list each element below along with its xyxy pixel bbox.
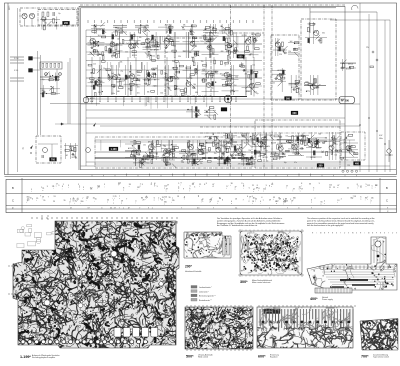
resistor R89	[125, 75, 127, 79]
junction	[150, 55, 151, 56]
svg-text:55: 55	[87, 196, 89, 198]
resistor R116	[212, 82, 214, 86]
svg-text:10µ: 10µ	[172, 61, 175, 63]
pcb 300 pad rows	[247, 243, 248, 244]
wire drop	[100, 140, 102, 151]
wire	[209, 32, 211, 58]
wire	[133, 140, 135, 160]
wire	[297, 133, 299, 145]
pcb 600 bottom traces	[255, 326, 359, 351]
arrow stroke	[102, 28, 107, 33]
arrow stroke	[93, 79, 98, 84]
resistor R141	[149, 155, 153, 157]
junction	[297, 86, 298, 87]
wire	[113, 31, 127, 33]
pcb 1-199 bottom pad row	[21, 340, 25, 344]
resistor R121	[227, 84, 231, 86]
arrow mark	[93, 123, 96, 127]
resistor R172	[234, 146, 236, 150]
resistor R296	[42, 93, 44, 97]
svg-text:21: 21	[118, 184, 120, 186]
wire	[165, 65, 167, 95]
capacitor C132	[243, 69, 245, 71]
small part	[228, 46, 232, 48]
capacitor C244	[196, 109, 198, 111]
svg-text:55: 55	[273, 197, 275, 199]
arrow stroke	[233, 40, 238, 45]
small part	[150, 56, 152, 60]
svg-text:17: 17	[286, 186, 288, 188]
wire	[277, 138, 291, 140]
wire	[125, 143, 141, 145]
resistor R227	[242, 134, 246, 136]
pcb 500 edge ticks	[186, 305, 188, 307]
wire	[223, 142, 237, 144]
pcb 600 trace	[275, 309, 277, 321]
wire	[111, 65, 113, 95]
capacitor C226	[231, 139, 233, 141]
arrow stroke	[169, 150, 174, 155]
small part	[256, 151, 260, 153]
svg-text:8: 8	[123, 188, 124, 190]
resistor R129	[250, 75, 252, 79]
svg-text:Recording-playback amplifier: Recording-playback amplifier	[32, 357, 56, 359]
junction	[129, 71, 130, 72]
wire	[56, 17, 58, 30]
svg-text:55: 55	[30, 197, 32, 199]
resistor R260	[295, 80, 299, 82]
svg-text:5: 5	[358, 186, 359, 188]
svg-text:15k: 15k	[152, 56, 155, 58]
svg-text:33: 33	[309, 184, 311, 186]
wire	[125, 150, 141, 152]
svg-text:21: 21	[42, 188, 44, 190]
resistor R110	[185, 88, 187, 92]
wire	[289, 83, 300, 85]
junction	[192, 34, 193, 35]
small part	[97, 52, 99, 56]
arrow stroke	[228, 138, 233, 143]
svg-text:BC158: BC158	[263, 157, 268, 159]
junction	[230, 139, 231, 140]
arrow stroke	[270, 136, 275, 141]
arrow stroke	[90, 52, 95, 57]
svg-text:13: 13	[177, 196, 179, 198]
svg-text:310: 310	[350, 197, 353, 199]
wire	[130, 65, 132, 95]
dash-dot divider	[205, 32, 264, 34]
arrow stroke	[47, 21, 52, 26]
pcb 1-199 edge ticks	[56, 221, 58, 224]
wire	[86, 60, 262, 62]
resistor R212	[334, 139, 336, 143]
bus tap	[203, 97, 205, 101]
wire drop	[264, 140, 266, 153]
bus tap	[115, 97, 117, 101]
wire	[40, 93, 60, 95]
svg-text:6: 6	[32, 198, 33, 200]
wire	[190, 24, 192, 34]
arrow stroke	[225, 139, 230, 144]
svg-text:3: 3	[111, 207, 112, 209]
wire	[192, 156, 194, 166]
svg-text:1n5: 1n5	[202, 70, 205, 72]
svg-text:680: 680	[227, 162, 230, 164]
wire	[230, 154, 246, 156]
arrow stroke	[342, 60, 347, 65]
resistor R117	[202, 79, 206, 81]
svg-text:3: 3	[128, 207, 129, 209]
wire	[272, 69, 286, 71]
wire	[163, 77, 180, 79]
svg-text:115: 115	[285, 200, 288, 202]
wire	[273, 49, 287, 51]
wire	[40, 79, 60, 81]
pcb 600 trace	[293, 309, 295, 324]
wire	[101, 65, 103, 95]
svg-text:100n: 100n	[111, 93, 115, 95]
small part	[140, 164, 142, 168]
svg-text:15k: 15k	[246, 91, 249, 93]
arrow stroke	[263, 142, 268, 147]
resistor R207	[308, 138, 310, 142]
transistor T269	[310, 84, 315, 89]
svg-text:5: 5	[372, 185, 373, 187]
junction	[298, 138, 299, 139]
pcb 600 trace	[349, 309, 351, 322]
resistor R115	[207, 74, 209, 78]
wire	[202, 53, 219, 55]
svg-text:700: 700	[51, 158, 56, 161]
junction	[254, 38, 255, 39]
svg-text:1: 1	[236, 207, 237, 209]
wire	[183, 50, 200, 52]
svg-text:der Oszillator 4-7 betriebssic: der Oszillator 4-7 betriebssicher auszuf…	[217, 224, 258, 227]
junction	[318, 139, 319, 140]
resistor R155	[181, 150, 185, 152]
svg-text:13: 13	[278, 198, 280, 200]
resistor R213	[326, 151, 328, 155]
svg-text:112: 112	[263, 189, 266, 191]
svg-text:5: 5	[104, 184, 105, 186]
resistor R282	[58, 63, 60, 67]
resistor R3	[101, 36, 105, 38]
wire	[40, 76, 60, 78]
pcb 1-199 main amplifier board	[13, 221, 179, 348]
wire	[295, 134, 309, 136]
wire	[252, 133, 254, 145]
wire	[331, 132, 333, 160]
wire	[324, 140, 340, 142]
svg-text:T: T	[388, 233, 389, 235]
arrow stroke	[142, 31, 147, 36]
wire	[181, 26, 195, 28]
junction	[136, 152, 137, 153]
svg-text:470: 470	[222, 74, 225, 76]
wire	[230, 133, 232, 145]
svg-text:7: 7	[139, 207, 140, 209]
svg-text:22µ: 22µ	[226, 81, 229, 83]
margin note	[10, 77, 24, 79]
dashed lead-out lines	[8, 265, 18, 267]
wire	[342, 142, 358, 144]
svg-text:BC238: BC238	[96, 29, 101, 31]
resistor R106	[190, 74, 194, 76]
wire	[305, 37, 327, 39]
small part	[243, 55, 245, 59]
resistor R68	[226, 27, 230, 29]
bus tap	[99, 97, 101, 101]
svg-text:310: 310	[293, 197, 296, 199]
svg-text:13: 13	[235, 199, 237, 201]
svg-text:5: 5	[249, 188, 250, 190]
svg-text:a: a	[154, 200, 155, 202]
svg-text:10µ: 10µ	[229, 80, 232, 82]
resistor R5	[94, 42, 96, 46]
junction	[165, 157, 166, 158]
small part	[157, 55, 159, 59]
svg-text:55: 55	[43, 200, 45, 202]
wire drop	[291, 140, 293, 152]
wire	[157, 65, 159, 95]
svg-text:7: 7	[48, 197, 49, 199]
wire drop	[157, 36, 159, 47]
wire	[95, 24, 97, 34]
frame bottom second line	[5, 176, 397, 178]
resistor R210	[333, 136, 335, 140]
wire	[265, 132, 267, 160]
wire	[133, 32, 135, 58]
wire	[202, 35, 219, 37]
svg-text:13: 13	[201, 200, 203, 202]
pcb 600 trace	[296, 309, 298, 328]
capacitor C290	[42, 19, 44, 21]
wire drop	[160, 140, 162, 152]
pcb 600 trace	[284, 309, 286, 325]
pcb 1-199 notch outlines	[28, 241, 36, 246]
arrow stroke	[45, 72, 50, 77]
resistor R82	[120, 79, 124, 81]
svg-text:47: 47	[253, 189, 255, 191]
resistor R51	[245, 51, 249, 53]
transistor T91	[147, 74, 152, 79]
svg-text:15k: 15k	[201, 61, 204, 63]
wire	[295, 139, 309, 141]
arrow stroke	[330, 137, 335, 142]
small part	[246, 163, 250, 165]
arrow stroke	[167, 154, 172, 159]
wire	[161, 157, 177, 159]
arrow stroke	[136, 77, 141, 82]
wire	[241, 159, 255, 161]
svg-text:22µ: 22µ	[211, 88, 214, 90]
wire	[230, 151, 246, 153]
svg-text:220: 220	[146, 25, 149, 27]
arrow stroke	[280, 73, 285, 78]
svg-text:1k5: 1k5	[145, 30, 148, 32]
frame inner left line	[7, 3, 9, 175]
wire	[183, 69, 200, 71]
arrow stroke	[174, 74, 179, 79]
dash-dot rail	[200, 132, 340, 134]
small part	[151, 159, 153, 163]
resistor R249	[280, 49, 284, 51]
svg-text:7: 7	[311, 207, 312, 209]
svg-text:1k5: 1k5	[293, 147, 296, 149]
svg-text:Hinterband Kontrolle: Hinterband Kontrolle	[185, 270, 201, 273]
wire	[221, 24, 223, 34]
resistor R275	[349, 66, 353, 68]
junction	[282, 156, 283, 157]
svg-text:680: 680	[221, 51, 224, 53]
junction	[113, 52, 114, 53]
svg-text:100n: 100n	[200, 41, 204, 43]
resistor R124	[227, 75, 231, 77]
pcb 300 corner marks	[238, 230, 242, 232]
dash-dot enclosure meter board 500	[271, 35, 299, 100]
resistor R21	[151, 39, 155, 41]
wire	[247, 133, 249, 145]
small part	[102, 52, 104, 56]
junction	[195, 54, 196, 55]
wire	[222, 79, 239, 81]
small part	[239, 65, 243, 67]
resistor R9	[109, 49, 111, 53]
svg-text:22µ: 22µ	[153, 146, 156, 148]
pcb 600 trace	[259, 309, 261, 326]
junction	[188, 109, 189, 110]
small part	[295, 153, 299, 155]
pcb 1-199 copper traces	[11, 219, 181, 351]
board label 700	[50, 158, 57, 162]
svg-text:3: 3	[313, 187, 314, 189]
wire drop	[107, 62, 109, 75]
wire	[205, 140, 207, 160]
svg-text:86: 86	[141, 197, 143, 199]
resistor R248	[282, 42, 284, 46]
small part	[203, 64, 207, 66]
wire	[202, 73, 219, 75]
svg-text:8k2: 8k2	[224, 38, 227, 40]
svg-text:700*: 700*	[361, 355, 369, 359]
svg-text:21: 21	[333, 187, 335, 189]
svg-text:8: 8	[259, 188, 260, 190]
arrow stroke	[222, 26, 227, 31]
svg-text:15k: 15k	[204, 39, 207, 41]
capacitor C1	[52, 12, 54, 16]
small part	[258, 160, 262, 162]
small part	[134, 140, 136, 144]
svg-text:8: 8	[269, 185, 270, 187]
svg-text:5: 5	[366, 184, 367, 186]
svg-text:3: 3	[298, 207, 299, 209]
junction	[169, 28, 170, 29]
arrow stroke	[294, 52, 299, 57]
wire	[99, 57, 101, 97]
svg-text:33k: 33k	[189, 52, 192, 54]
svg-text:7: 7	[119, 196, 120, 198]
wire	[279, 133, 281, 145]
capacitor C31	[165, 47, 167, 49]
small part	[254, 38, 256, 42]
bus tap	[187, 97, 189, 101]
svg-text:600: 600	[293, 112, 298, 115]
svg-text:a: a	[164, 188, 165, 190]
wire drop	[206, 97, 208, 108]
svg-text:4k7: 4k7	[258, 140, 261, 142]
wire	[271, 132, 273, 160]
arrow stroke	[226, 78, 231, 83]
wire	[213, 57, 215, 97]
capacitor C259	[274, 78, 276, 80]
wire	[290, 75, 292, 93]
resistor R27	[172, 50, 176, 52]
resistor R261	[296, 88, 298, 92]
svg-text:112: 112	[367, 185, 370, 187]
svg-text:3: 3	[241, 183, 242, 185]
capacitor C156	[188, 155, 190, 157]
resistor R280	[50, 63, 52, 67]
resistor R199	[297, 143, 299, 147]
resistor R16	[132, 51, 136, 53]
resistor R24	[152, 35, 154, 39]
junction	[227, 42, 228, 43]
pcb 300 top pad columns	[245, 237, 247, 239]
resistor R154	[183, 155, 185, 159]
wire	[245, 65, 247, 95]
small part	[304, 142, 306, 146]
pcb 600 transistor row	[262, 321, 265, 324]
wire	[40, 88, 60, 90]
dash-dot enclosure 200 board	[38, 10, 77, 26]
resistor R187	[256, 152, 260, 154]
wire	[304, 85, 326, 87]
wire drop	[95, 97, 97, 106]
wire	[86, 96, 247, 98]
resistor R243	[195, 107, 197, 111]
svg-text:P: P	[376, 233, 377, 235]
wire	[241, 163, 255, 165]
resistor R160	[198, 150, 202, 152]
wire	[125, 150, 141, 152]
wire	[143, 49, 160, 51]
svg-text:2: 2	[249, 201, 250, 203]
resistor R73	[90, 78, 94, 80]
wire	[133, 162, 147, 164]
small part	[207, 161, 211, 163]
svg-text:BC158: BC158	[132, 55, 137, 57]
junction	[210, 38, 211, 39]
resistor R135	[136, 150, 140, 152]
svg-text:112: 112	[164, 186, 167, 188]
wire	[209, 106, 211, 118]
board label 500	[285, 97, 292, 101]
resistor R231	[261, 141, 265, 143]
wire	[86, 98, 345, 100]
svg-text:Equalizer: Equalizer	[270, 357, 278, 359]
playback head symbol	[29, 69, 33, 73]
svg-text:680: 680	[195, 92, 198, 94]
resistor R182	[224, 160, 226, 164]
resistor R180	[193, 159, 195, 163]
wire	[306, 147, 322, 149]
pcb 600 trace	[287, 309, 289, 329]
small part	[136, 79, 140, 81]
board label 600a	[237, 55, 244, 59]
svg-text:3n3: 3n3	[250, 139, 253, 141]
svg-text:PF 200: PF 200	[341, 100, 350, 103]
arrow stroke	[262, 136, 267, 141]
